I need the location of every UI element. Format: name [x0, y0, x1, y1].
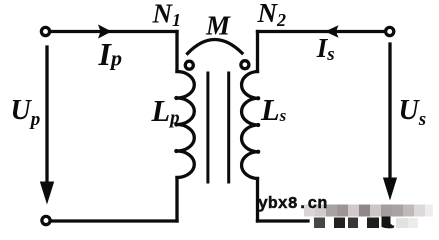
- arrowhead Us: [383, 178, 397, 201]
- wire top-right: [258, 30, 385, 33]
- dot secondary: [241, 61, 249, 69]
- core bar right: [227, 73, 230, 182]
- wire bottom-right: [258, 219, 309, 222]
- arrow line Up: [45, 47, 48, 185]
- arrowhead Up: [40, 182, 54, 205]
- terminal TR: [386, 27, 394, 35]
- wire top-left: [52, 30, 178, 33]
- terminal TL: [41, 27, 49, 35]
- dot primary: [185, 61, 193, 69]
- inductor Ls: [242, 72, 258, 179]
- coil Lp junction knots: [174, 96, 178, 100]
- arrowhead Ip: [98, 24, 112, 38]
- core bar left: [206, 73, 209, 182]
- svg-text:Is: Is: [316, 33, 335, 65]
- svg-text:Us: Us: [399, 95, 427, 130]
- svg-text:N1: N1: [152, 0, 182, 30]
- mosaic hook remnant: [382, 217, 395, 229]
- svg-text:Ip: Ip: [98, 36, 122, 72]
- svg-text:M: M: [205, 11, 231, 41]
- arrowhead Is: [325, 25, 339, 38]
- inductor Lp: [177, 72, 194, 178]
- svg-text:N2: N2: [257, 0, 287, 30]
- wire N2 vertical: [256, 32, 259, 72]
- svg-text:Up: Up: [11, 95, 41, 130]
- coil Ls junction knots: [256, 96, 260, 100]
- wire N1 vertical: [175, 32, 178, 72]
- mutual arc M: [188, 39, 243, 53]
- wire bottom-left: [52, 219, 178, 222]
- wire Lp to bottom: [175, 178, 178, 222]
- svg-text:ybx8.cn: ybx8.cn: [258, 194, 327, 213]
- mosaic row top: [304, 205, 315, 217]
- mosaic row bottom dark blocks: [314, 218, 325, 229]
- wire Ls to bottom: [256, 179, 259, 222]
- svg-text:Ls: Ls: [260, 93, 287, 127]
- terminal BL: [42, 216, 50, 224]
- arrow line Us: [388, 44, 391, 181]
